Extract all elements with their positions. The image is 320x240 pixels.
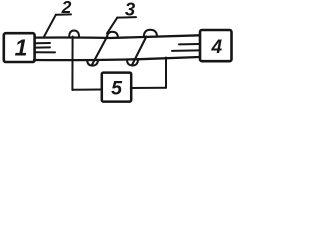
coil bottom hump 2: [127, 60, 138, 66]
coil top hump 2: [107, 32, 118, 38]
label 3 leader line: [107, 18, 117, 34]
svg-text:4: 4: [211, 37, 223, 58]
wire: tube to box4 line b: [172, 49, 199, 52]
coil top hump 3: [144, 30, 157, 37]
coil bottom hump 1: [87, 60, 98, 65]
wire: box1 to tube line a: [36, 42, 50, 44]
label 2 leader line: [44, 15, 56, 37]
wire: tube to box4 line a: [179, 43, 199, 45]
coil diagonal 1: [92, 36, 107, 65]
wire: right lead left to box5: [131, 87, 166, 89]
wire: box1 to tube line b: [36, 46, 50, 48]
wire: left lead down-right to box5: [72, 89, 102, 91]
tube bottom line: [34, 57, 200, 60]
box 1: [4, 33, 35, 62]
box 5: [102, 73, 131, 102]
svg-text:1: 1: [15, 35, 28, 61]
svg-text:5: 5: [111, 78, 123, 100]
box 4: [200, 30, 232, 61]
label 2 underline: [56, 13, 71, 15]
coil top hump 1: [69, 31, 79, 38]
coil right lead (vertical): [165, 58, 167, 88]
coil diagonal 2: [132, 37, 146, 66]
wire: box1 to tube line c: [35, 51, 56, 53]
tube top line: [35, 35, 200, 38]
coil left lead (vertical through tube): [71, 37, 73, 91]
label 3 underline: [117, 16, 136, 19]
